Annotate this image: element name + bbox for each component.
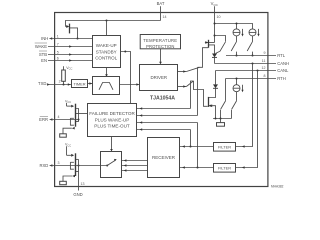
wire failure input 1 vertical — [191, 81, 194, 109]
arrowhead filter2 into receiver — [182, 166, 185, 169]
junction S2 on RTL — [236, 55, 238, 57]
switch S4 — [221, 101, 226, 119]
current source I2 — [249, 29, 260, 42]
svg-text:EN: EN — [41, 58, 47, 63]
wire failure input 2 vertical — [197, 67, 199, 115]
outer chip boundary box — [55, 13, 268, 187]
svg-text:CONTROL: CONTROL — [95, 55, 117, 60]
wire ground rail — [213, 118, 232, 120]
junction VCC rail — [214, 23, 216, 25]
wire CANL down to filter2 — [236, 71, 258, 168]
wire failure input 4 vertical to filter1 — [190, 130, 192, 147]
switch S6 CANH gate — [186, 67, 199, 71]
wire failure detector to ERR gate — [76, 113, 88, 115]
pin 12 CANL — [216, 66, 290, 73]
pin 11 CANH — [215, 59, 290, 66]
junction S3 on RTL — [252, 55, 254, 57]
svg-text:9: 9 — [264, 51, 266, 55]
junction VCC branch — [214, 35, 216, 37]
junction CANH filter tap — [252, 63, 254, 65]
svg-text:CANL: CANL — [277, 68, 289, 73]
arrowhead into filter2 — [242, 166, 245, 169]
wire timer to slope control — [88, 82, 93, 85]
current source I1 — [233, 24, 244, 42]
pin 6 EN — [41, 56, 92, 63]
wire failure input 1 — [137, 107, 191, 110]
svg-text:CANH: CANH — [277, 61, 289, 66]
svg-text:4: 4 — [58, 115, 60, 119]
switch S2 RTL — [231, 42, 236, 56]
wire upper gate to Q2 — [198, 48, 209, 68]
svg-text:INH: INH — [41, 36, 48, 41]
pin 14 BAT stub wire — [160, 6, 162, 20]
svg-text:STANDBY: STANDBY — [96, 49, 117, 54]
junction CANL filter tap — [257, 70, 259, 72]
svg-text:14: 14 — [163, 15, 167, 19]
wire temperature protection to driver — [159, 49, 162, 65]
junction TXD pull-up — [63, 84, 65, 86]
block filter F2 — [214, 164, 236, 173]
svg-text:RXD: RXD — [39, 163, 48, 168]
wire failure input 2 — [137, 114, 198, 117]
pin 10 VCC stub wire — [214, 6, 216, 42]
wire failure input 4 — [137, 128, 191, 131]
block failure detector U6 — [88, 104, 137, 137]
wire mux input a — [122, 159, 148, 162]
svg-text:DRIVER: DRIVER — [151, 75, 168, 80]
wire RXD node verticals — [78, 159, 80, 171]
pin 2 TXD — [38, 80, 71, 86]
ground symbol G1 — [217, 119, 225, 127]
svg-text:6: 6 — [57, 56, 59, 60]
wire BAT rail — [66, 21, 161, 27]
block filter F1 — [214, 143, 236, 152]
junction I1 tap — [236, 23, 238, 25]
junction I3 on RTH — [236, 78, 238, 80]
svg-text:FILTER: FILTER — [218, 144, 231, 149]
junction Q1 drain to INH line — [77, 38, 79, 40]
wire RTH corner down to S4 — [225, 79, 227, 101]
block timer U2 — [72, 80, 88, 88]
junction ground rail tap — [220, 118, 222, 120]
svg-text:RTH: RTH — [277, 76, 286, 81]
svg-text:WAKE-UP: WAKE-UP — [96, 43, 117, 48]
svg-text:TXD: TXD — [38, 81, 46, 86]
block wake-up standby control U1 — [93, 36, 121, 68]
arrowhead into filter1 — [242, 145, 245, 148]
wire wake-up to slope control arrow — [105, 68, 108, 77]
wire driver lower output — [178, 85, 187, 88]
junction ERR output node — [78, 119, 80, 121]
wire mux input c — [122, 169, 148, 172]
junction wake-up output — [124, 51, 126, 53]
junction RXD output node — [78, 165, 80, 167]
wire VCC rail — [215, 24, 253, 29]
svg-text:11: 11 — [262, 59, 266, 63]
wire slope control to driver — [120, 83, 140, 86]
block receiver U8 — [148, 138, 180, 178]
svg-text:MHA382: MHA382 — [271, 184, 284, 188]
wire VCC branch to switch S1 — [215, 36, 226, 42]
svg-text:3: 3 — [58, 161, 60, 165]
pin 4 ERR — [39, 115, 78, 122]
diode D1 CANH — [212, 54, 217, 64]
svg-text:TIMER: TIMER — [73, 81, 85, 86]
svg-text:5: 5 — [57, 50, 59, 54]
resistor R1 TXD pull-up with VCC — [62, 66, 73, 85]
svg-text:7: 7 — [57, 42, 59, 46]
junction ground rail left — [215, 118, 217, 120]
svg-text:TEMPERATURE: TEMPERATURE — [143, 38, 177, 43]
block temperature protection U4 — [140, 35, 180, 50]
switch S3 RTL — [247, 42, 252, 56]
svg-text:2: 2 — [59, 80, 61, 84]
wire wake-up output to failure detector — [121, 52, 131, 104]
current source I3 RTH — [233, 79, 244, 101]
svg-text:PLUS TIME-OUT: PLUS TIME-OUT — [94, 123, 130, 128]
svg-text:PROTECTION: PROTECTION — [146, 44, 174, 49]
pin 5 STB — [39, 50, 93, 57]
wire failure input 3 vertical to filter2 — [197, 123, 199, 168]
svg-text:WAKE: WAKE — [35, 44, 47, 49]
wire failure input 3 — [137, 121, 198, 124]
wire failure detector to mux — [110, 137, 113, 152]
svg-text:TJA1054A: TJA1054A — [150, 95, 175, 101]
svg-text:FILTER: FILTER — [218, 165, 231, 170]
svg-text:BAT: BAT — [157, 1, 165, 6]
pin 8 RTH — [226, 74, 286, 81]
wire lower gate to Q3 — [194, 81, 208, 106]
block slope control U3 with trapezoid waveform symbol — [93, 77, 120, 95]
svg-text:8: 8 — [264, 74, 266, 78]
svg-text:FAILURE DETECTOR: FAILURE DETECTOR — [89, 111, 135, 116]
block mux switch U7 — [101, 152, 122, 178]
svg-text:ERR: ERR — [39, 117, 48, 122]
pin 7 WAKE — [35, 42, 93, 49]
svg-text:GND: GND — [73, 192, 82, 197]
wire driver upper output — [178, 70, 187, 73]
wire mux input b — [122, 164, 148, 167]
transistor Q2 CANH high-side — [205, 40, 215, 54]
junction filter2 line — [197, 167, 199, 169]
junction filter1 line — [190, 146, 192, 148]
switch S5 — [232, 101, 237, 119]
transistor Q1 INH high-side switch — [66, 24, 78, 39]
svg-text:1: 1 — [57, 34, 59, 38]
transistor Q3 CANL low-side — [209, 97, 216, 119]
arrowhead filter1 into receiver — [182, 145, 185, 148]
pin 1 INH — [41, 34, 92, 41]
pin 9 RTL — [226, 51, 286, 58]
wire filter1 to receiver — [180, 146, 214, 148]
diode D2 CANL — [209, 71, 219, 98]
svg-text:RTL: RTL — [277, 53, 286, 58]
wire CANH down to filter1 — [236, 64, 253, 147]
transistor pair Q6 Q7 RXD output stage with VCC — [60, 143, 79, 185]
pin 3 RXD — [39, 161, 107, 168]
wire tap to wake-up box — [106, 21, 108, 36]
transistor pair Q4 Q5 ERR output stage with VCC — [60, 99, 79, 137]
svg-text:STB: STB — [39, 52, 47, 57]
svg-text:RECEIVER: RECEIVER — [152, 155, 176, 160]
svg-text:10: 10 — [217, 15, 221, 19]
wire filter2 to receiver — [180, 167, 214, 169]
junction Q3 source — [210, 105, 212, 107]
svg-text:13: 13 — [81, 182, 85, 186]
pin 13 GND wire — [78, 172, 80, 191]
junction BAT rail to wake-up control — [106, 20, 108, 22]
switch S1 blade to CANH node — [216, 42, 226, 54]
block driver U5 — [140, 65, 178, 91]
switch S7 CANL gate — [186, 81, 193, 87]
svg-text:PLUS WAKE-UP: PLUS WAKE-UP — [95, 117, 130, 122]
svg-text:12: 12 — [262, 66, 266, 70]
